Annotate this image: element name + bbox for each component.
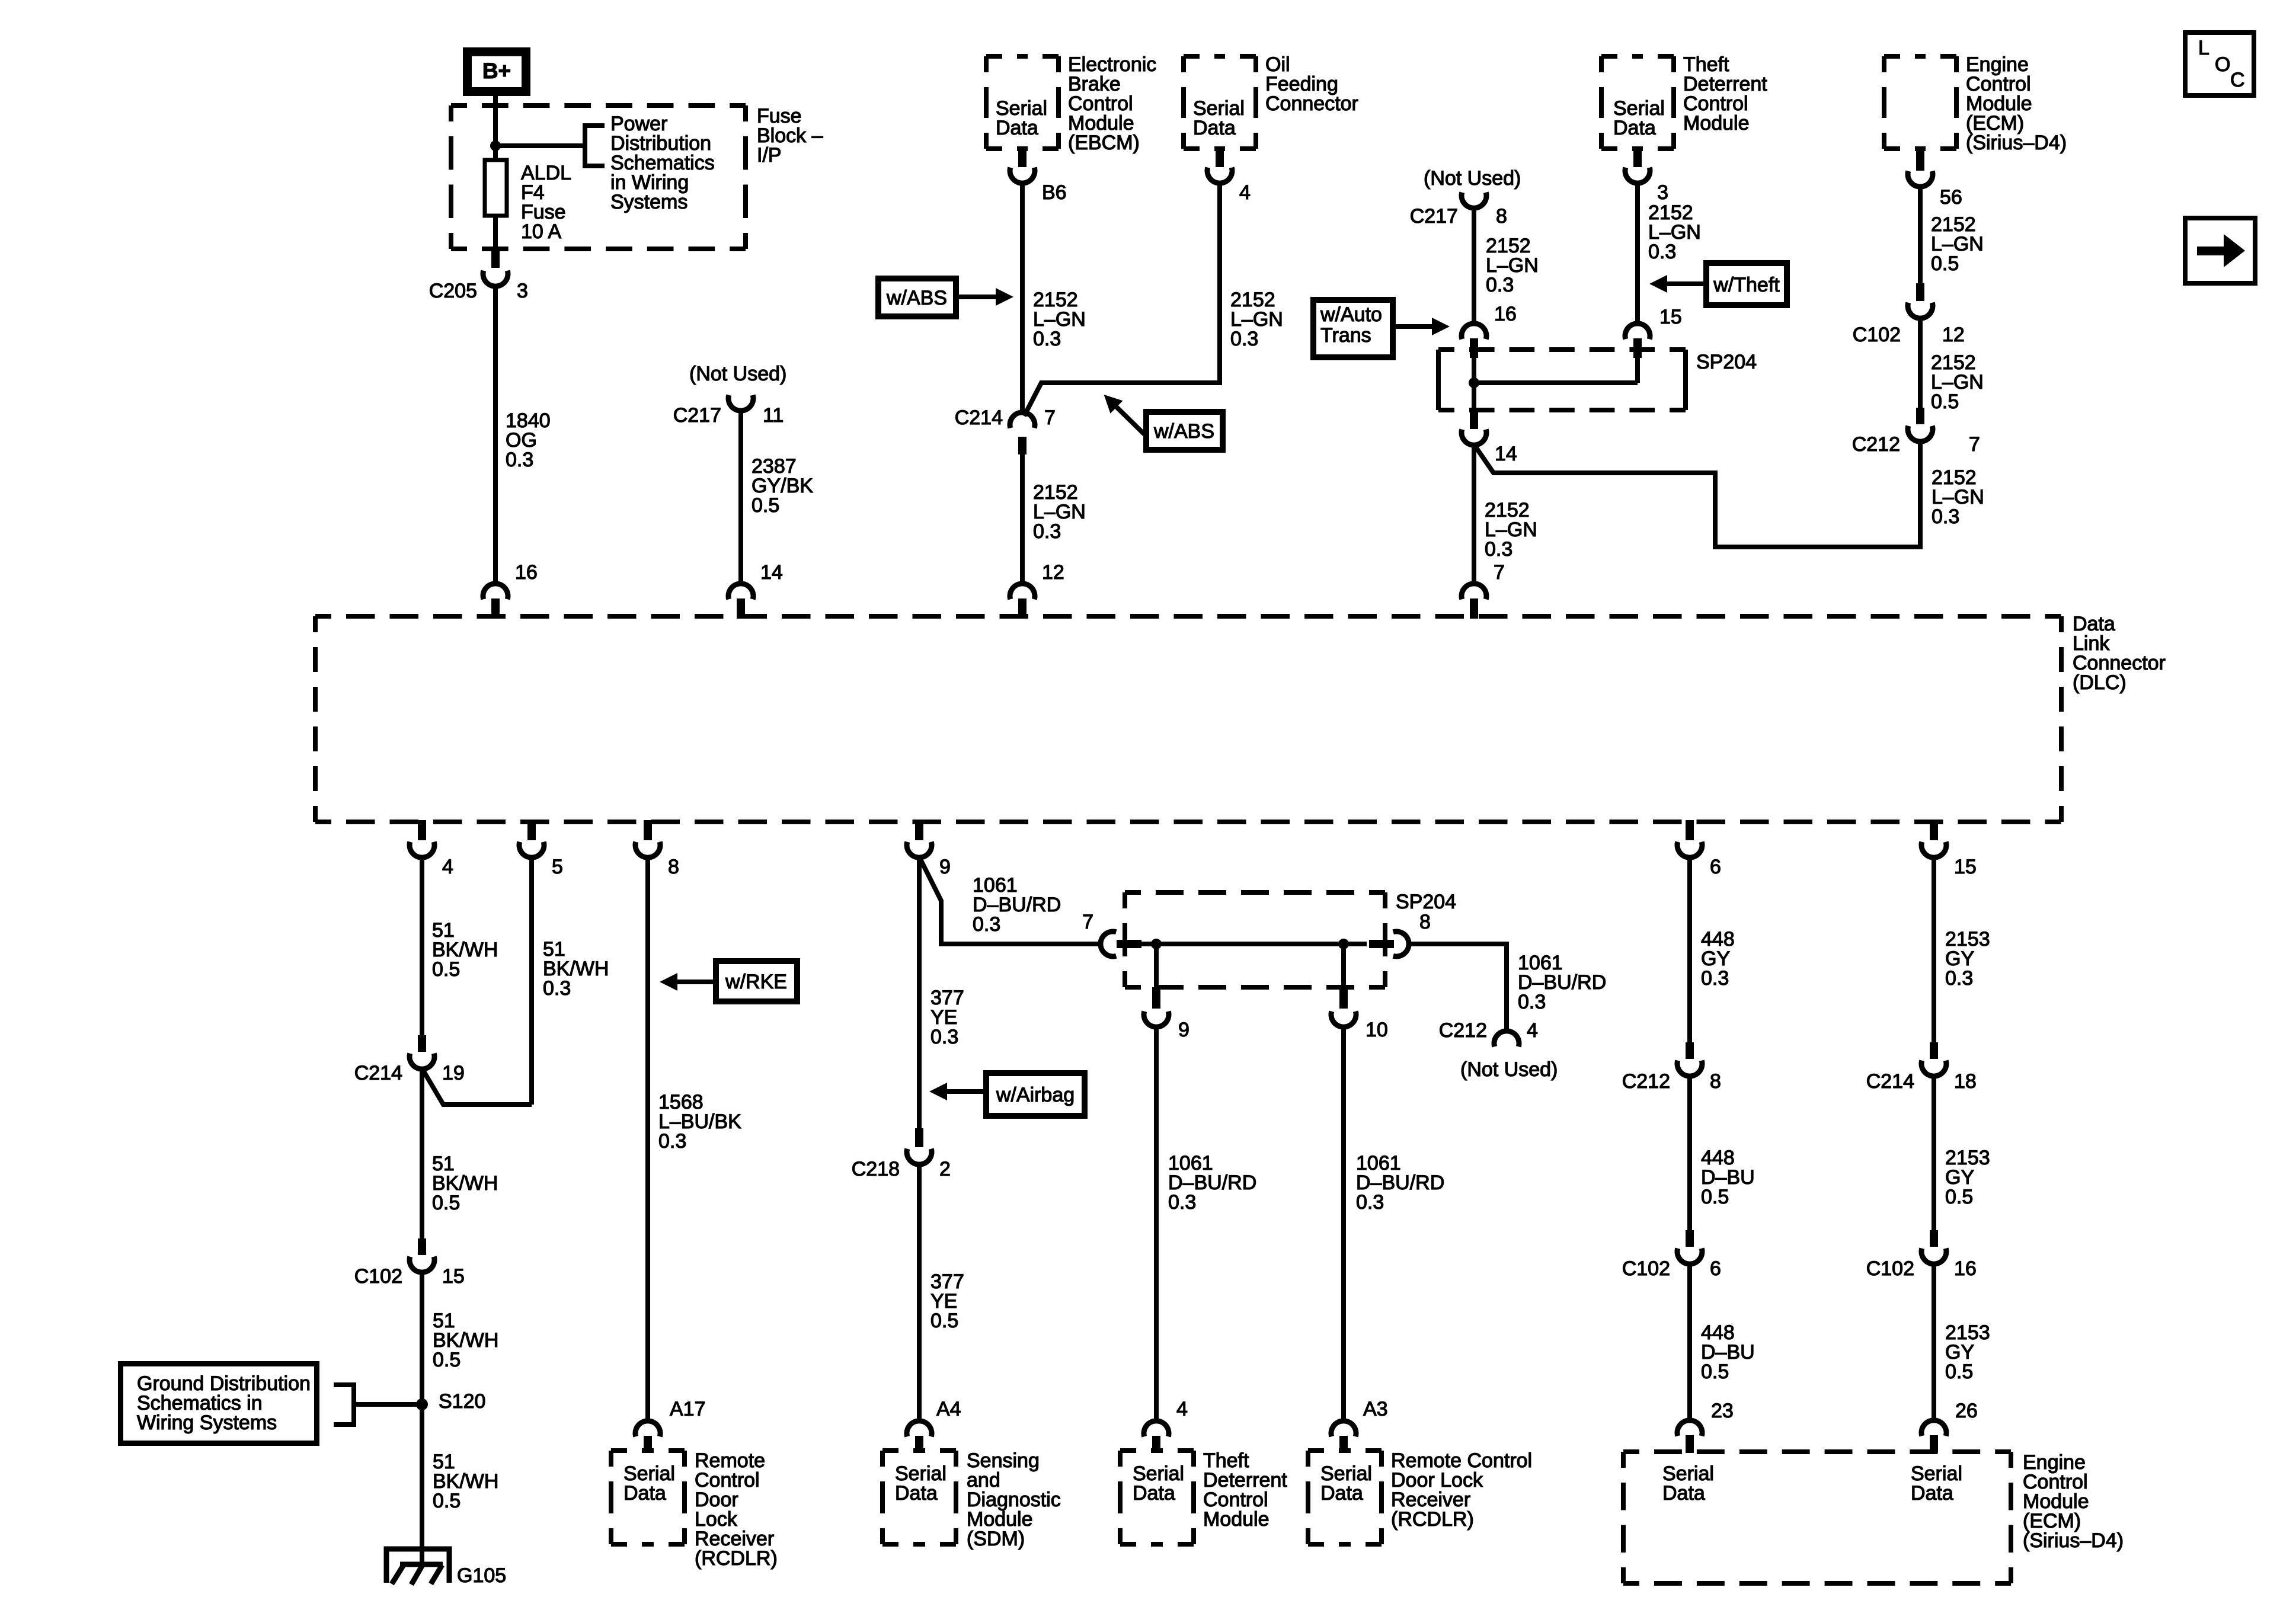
- svg-text:B6: B6: [1042, 181, 1067, 204]
- DLC pin 14 pin: [737, 598, 745, 619]
- svg-text:0.3: 0.3: [506, 449, 533, 471]
- svg-text:Data: Data: [1911, 1482, 1953, 1505]
- wire 377 YE dlc9 to C218: [917, 857, 922, 1128]
- wire 1061 D-BU/RD dlc9 to SP204-7: [919, 857, 1101, 944]
- splice S120: [416, 1398, 428, 1410]
- connector C212 pin 8 pin: [1686, 1042, 1694, 1059]
- ECM pin 23 cup: [1677, 1420, 1702, 1436]
- svg-text:C212: C212: [1852, 433, 1900, 456]
- svg-text:Data: Data: [1133, 1482, 1175, 1505]
- SP204 pin 8 pin: [1369, 940, 1394, 948]
- ECM module box top: [1884, 54, 1956, 59]
- svg-text:7: 7: [1082, 911, 1093, 933]
- legend LOC box: [2185, 33, 2254, 95]
- connector C212 pin 4 cup: [1494, 1031, 1519, 1046]
- svg-text:16: 16: [1954, 1257, 1977, 1280]
- SDM pin A4 pin: [915, 1436, 923, 1452]
- svg-text:C102: C102: [1866, 1257, 1914, 1280]
- wire 1061 D-BU/RD to RCDLR A3: [1341, 1026, 1346, 1422]
- wire 2153 GY C214 to C102: [1932, 1076, 1936, 1230]
- svg-text:I/P: I/P: [757, 144, 782, 167]
- wire 448 D-BU C212 to C102: [1687, 1076, 1692, 1230]
- svg-text:C218: C218: [852, 1158, 900, 1180]
- svg-text:B+: B+: [482, 59, 511, 83]
- DLC pin 12 cup: [1010, 584, 1035, 599]
- wire oil 2152 L-GN to C214 junction: [1024, 183, 1220, 416]
- wire 2152 L-GN SP204-14 to DLC 7: [1472, 444, 1476, 584]
- DLC pin 8 cup: [635, 842, 660, 857]
- svg-text:Data: Data: [1193, 117, 1236, 139]
- wire SP204 lower drop left: [1154, 944, 1159, 987]
- wire 1061 D-BU/RD SP204-8 to C212-4: [1408, 944, 1507, 1033]
- wire 51 BK/WH dlc4 to C214: [420, 857, 424, 1035]
- svg-text:5: 5: [552, 856, 563, 878]
- connector C214 pin 19 cup: [410, 1054, 434, 1069]
- svg-text:w/Auto: w/Auto: [1320, 303, 1382, 326]
- svg-text:Module: Module: [1683, 112, 1750, 135]
- svg-text:C217: C217: [673, 404, 721, 427]
- svg-text:0.3: 0.3: [1033, 328, 1061, 350]
- connector C214 pin 19 pin: [418, 1035, 426, 1052]
- ground distribution reference box: [121, 1364, 317, 1443]
- EBCM pin B6: [1018, 148, 1027, 167]
- wire SP204 internal bus: [1474, 380, 1638, 385]
- connector C102 pin 16 cup: [1921, 1249, 1946, 1264]
- svg-text:0.3: 0.3: [1648, 241, 1676, 263]
- DLC pin 6 cup: [1677, 842, 1702, 857]
- svg-text:4: 4: [1527, 1019, 1538, 1042]
- SP204 pin 14 cup: [1462, 430, 1486, 445]
- svg-text:12: 12: [1042, 561, 1064, 584]
- svg-text:0.3: 0.3: [1485, 538, 1512, 561]
- svg-text:(Sirius–D4): (Sirius–D4): [1966, 132, 2067, 154]
- connector C102 pin 6 cup: [1677, 1249, 1702, 1264]
- svg-text:0.3: 0.3: [1701, 967, 1729, 990]
- theft module pin 3 cup: [1625, 168, 1650, 183]
- wire SP204 lower internal bus: [1141, 942, 1367, 946]
- svg-text:(Not Used): (Not Used): [689, 363, 786, 385]
- svg-text:C205: C205: [429, 280, 477, 302]
- svg-text:S120: S120: [439, 1390, 485, 1413]
- svg-text:4: 4: [1176, 1398, 1188, 1420]
- wire B+ to fuse: [493, 96, 498, 160]
- oil connector pin 4: [1216, 148, 1224, 167]
- DLC pin 4 pin: [418, 820, 426, 840]
- arrow w/RKE left: [677, 980, 713, 984]
- svg-text:26: 26: [1955, 1400, 1978, 1422]
- EBCM pin B6 cup: [1010, 168, 1035, 183]
- DLC pin 7 pin: [1470, 598, 1478, 619]
- svg-text:C214: C214: [955, 406, 1003, 429]
- svg-text:0.5: 0.5: [1701, 1186, 1729, 1208]
- wire 51 BK/WH c214 to c102: [420, 1068, 424, 1238]
- ECM module box lower: [1623, 1449, 2011, 1454]
- svg-text:4: 4: [442, 856, 453, 878]
- SP204 pin 15 cup: [1625, 324, 1650, 339]
- SP204 pin 14 pin: [1470, 410, 1478, 429]
- svg-text:6: 6: [1710, 1257, 1721, 1280]
- wire 2152 L-GN C217-8 to SP204: [1472, 207, 1476, 324]
- svg-text:C217: C217: [1410, 205, 1458, 228]
- svg-text:C212: C212: [1439, 1019, 1487, 1042]
- svg-text:G105: G105: [457, 1564, 506, 1587]
- svg-text:0.3: 0.3: [930, 1026, 958, 1048]
- connector C102 pin 15 cup: [410, 1257, 434, 1272]
- svg-text:0.3: 0.3: [1356, 1191, 1384, 1214]
- svg-text:0.3: 0.3: [1230, 328, 1258, 350]
- theft module pin 4 cup: [1144, 1421, 1169, 1436]
- wire 2387 GY/BK to DLC pin 14: [738, 410, 743, 584]
- svg-text:C102: C102: [354, 1265, 402, 1288]
- splice SP204 box lower: [1125, 890, 1385, 895]
- ground G105 symbol: [386, 1549, 449, 1583]
- svg-text:C214: C214: [1866, 1070, 1914, 1093]
- wire 1061 D-BU/RD to theft pin 4: [1154, 1026, 1159, 1422]
- wire 51 BK/WH to ground: [420, 1272, 424, 1564]
- svg-text:8: 8: [1496, 205, 1507, 228]
- svg-text:0.3: 0.3: [1168, 1191, 1196, 1214]
- svg-text:0.3: 0.3: [973, 913, 1000, 936]
- wire 1568 L-BU/BK dlc8 to A17: [645, 857, 650, 1422]
- reference bracket ground: [334, 1385, 354, 1425]
- theft module pin 3: [1633, 148, 1642, 167]
- svg-text:C214: C214: [354, 1062, 402, 1084]
- svg-text:10 A: 10 A: [521, 220, 561, 243]
- svg-text:Data: Data: [1613, 117, 1656, 139]
- svg-text:w/ABS: w/ABS: [886, 287, 947, 309]
- svg-text:10: 10: [1366, 1019, 1388, 1041]
- w/ABS flag box 1: [878, 279, 956, 316]
- arrow w/Auto Trans right: [1396, 324, 1432, 329]
- wire junction to reference bracket: [495, 143, 585, 148]
- svg-text:L: L: [2198, 37, 2209, 59]
- wire SP204 internal left: [1472, 358, 1476, 410]
- svg-text:9: 9: [939, 856, 951, 878]
- wire 377 YE C218 to A4: [917, 1164, 922, 1422]
- svg-text:12: 12: [1942, 324, 1965, 346]
- svg-text:SP204: SP204: [1696, 351, 1757, 373]
- w/RKE flag box: [716, 961, 797, 1001]
- SP204 pin 15 pin: [1633, 338, 1642, 358]
- svg-text:0.5: 0.5: [1931, 252, 1959, 275]
- battery feed B+ box: [468, 52, 526, 92]
- svg-text:(RCDLR): (RCDLR): [695, 1547, 778, 1570]
- svg-text:16: 16: [1494, 303, 1517, 325]
- SP204 pin 10 pin: [1339, 987, 1348, 1009]
- svg-text:(RCDLR): (RCDLR): [1391, 1508, 1474, 1531]
- connector C214 pin 7 pin: [1018, 437, 1027, 454]
- wire 2152 L-GN SP204-14 to C212-7: [1474, 442, 1920, 547]
- svg-text:Trans: Trans: [1320, 324, 1371, 347]
- connector C205 pin: [491, 251, 500, 268]
- svg-text:0.3: 0.3: [1486, 274, 1514, 296]
- svg-text:0.3: 0.3: [1518, 991, 1546, 1013]
- w/Airbag flag box: [986, 1073, 1085, 1116]
- connector C217 cavity 11 cup: [728, 395, 753, 411]
- svg-text:19: 19: [442, 1062, 465, 1084]
- svg-text:6: 6: [1710, 856, 1721, 878]
- wire 2152 L-GN C102 to C212: [1918, 318, 1923, 409]
- svg-text:0.5: 0.5: [432, 1192, 460, 1214]
- svg-text:w/RKE: w/RKE: [725, 971, 787, 993]
- svg-text:8: 8: [1419, 911, 1431, 933]
- RCDLR pin A3 pin: [1339, 1436, 1348, 1452]
- svg-text:0.5: 0.5: [752, 494, 779, 517]
- connector C212 pin 7 cup: [1908, 426, 1933, 441]
- splice SP204 box: [1438, 347, 1686, 352]
- svg-text:0.5: 0.5: [1701, 1361, 1729, 1383]
- DLC pin 15 pin: [1930, 820, 1938, 840]
- RCDLR module box lower: [1308, 1448, 1382, 1453]
- wire SP204 internal right: [1635, 358, 1640, 383]
- SP204 pin 10 cup: [1331, 1012, 1356, 1027]
- svg-text:16: 16: [515, 561, 538, 584]
- SP204 pin 7 cup: [1101, 932, 1116, 956]
- svg-text:3: 3: [517, 280, 528, 302]
- ECM pin 56 cup: [1908, 171, 1933, 187]
- svg-text:0.5: 0.5: [433, 1349, 461, 1371]
- connector C102 pin 16 pin: [1930, 1230, 1938, 1247]
- SP204 pin 8 cup: [1393, 932, 1409, 956]
- connector C102 pin 15 pin: [418, 1238, 426, 1255]
- wire 2152 L-GN to DLC pin 12: [1020, 454, 1025, 584]
- SP204 pin 7 pin: [1117, 940, 1141, 948]
- connector C212 pin 7 pin: [1916, 408, 1924, 424]
- wire 2153 GY to ECM 26: [1932, 1263, 1936, 1421]
- svg-text:(EBCM): (EBCM): [1068, 132, 1140, 154]
- arrow w/ABS right: [959, 295, 996, 299]
- svg-text:0.3: 0.3: [1033, 520, 1061, 543]
- legend arrow symbol: [2197, 247, 2225, 255]
- svg-text:7: 7: [1969, 433, 1980, 456]
- node SP204 lower junction right: [1338, 939, 1349, 949]
- legend continuation arrow box: [2185, 218, 2255, 283]
- svg-text:C212: C212: [1622, 1070, 1670, 1093]
- svg-text:0.5: 0.5: [1931, 391, 1959, 413]
- EBCM module box: [986, 54, 1059, 59]
- svg-text:15: 15: [1954, 856, 1977, 878]
- svg-text:w/Airbag: w/Airbag: [996, 1084, 1075, 1106]
- w/Theft flag box: [1706, 263, 1787, 305]
- connector C218 pin 2 pin: [915, 1128, 923, 1147]
- svg-text:Data: Data: [623, 1482, 666, 1505]
- DLC pin 14 cup: [728, 584, 753, 599]
- svg-text:Wiring Systems: Wiring Systems: [137, 1411, 277, 1434]
- RCDLR module box: [611, 1448, 685, 1453]
- RCDLR pin A17 cup: [635, 1421, 660, 1436]
- theft deterrent module box: [1601, 54, 1674, 59]
- DLC pin 4 cup: [410, 842, 434, 857]
- reference bracket power distribution: [585, 126, 605, 166]
- svg-text:15: 15: [442, 1265, 465, 1288]
- SDM module box: [882, 1448, 956, 1453]
- svg-text:8: 8: [668, 856, 679, 878]
- SP204 pin 16 pin: [1470, 338, 1478, 358]
- connector C102 pin 6 pin: [1686, 1230, 1694, 1247]
- wire EBCM 2152 L-GN down: [1020, 183, 1025, 415]
- node SP204 junction: [1469, 377, 1479, 388]
- svg-text:9: 9: [1178, 1019, 1189, 1041]
- svg-text:Module: Module: [1203, 1508, 1269, 1531]
- wire 2152 theft to SP204 pin 15: [1635, 183, 1640, 324]
- SP204 pin 16 cup: [1462, 324, 1486, 339]
- wire 2153 GY dlc15 to C214: [1932, 857, 1936, 1042]
- svg-text:A4: A4: [936, 1398, 961, 1420]
- DLC pin 6 pin: [1686, 820, 1694, 840]
- svg-text:Data: Data: [1320, 1482, 1363, 1505]
- svg-text:4: 4: [1239, 181, 1251, 204]
- svg-text:Data: Data: [895, 1482, 938, 1505]
- svg-text:SP204: SP204: [1396, 891, 1456, 913]
- svg-text:A3: A3: [1363, 1398, 1388, 1420]
- svg-text:3: 3: [1657, 181, 1668, 204]
- svg-text:O: O: [2215, 53, 2230, 76]
- DLC pin 8 pin: [644, 820, 652, 840]
- svg-text:0.5: 0.5: [432, 958, 460, 981]
- DLC pin 12 pin: [1018, 598, 1027, 619]
- SP204 pin 9 pin: [1152, 987, 1160, 1009]
- svg-text:Data: Data: [996, 117, 1038, 139]
- DLC pin 7 cup: [1462, 584, 1486, 599]
- arrow w/Airbag left: [947, 1089, 983, 1094]
- wire 2152 L-GN ECM to C102: [1918, 186, 1923, 283]
- ECM pin 26 cup: [1921, 1420, 1946, 1436]
- w/ABS flag box 2: [1146, 412, 1223, 450]
- svg-text:Data: Data: [1662, 1482, 1705, 1505]
- svg-text:C: C: [2230, 69, 2245, 91]
- connector C212 pin 8 cup: [1677, 1061, 1702, 1076]
- svg-text:(Not Used): (Not Used): [1424, 167, 1521, 190]
- theft deterrent module box lower: [1120, 1448, 1194, 1453]
- DLC pin 5 pin: [527, 820, 536, 840]
- svg-text:0.3: 0.3: [658, 1130, 686, 1153]
- fuse block I/P box: [451, 103, 746, 108]
- svg-text:15: 15: [1659, 306, 1682, 328]
- wire 51 BK/WH dlc5 down: [529, 857, 534, 1105]
- node fuse-block junction: [490, 140, 501, 151]
- wire join pin5 to pin19: [422, 1068, 532, 1105]
- svg-text:0.3: 0.3: [1932, 505, 1959, 528]
- svg-text:18: 18: [1954, 1070, 1977, 1093]
- svg-text:0.5: 0.5: [930, 1310, 958, 1332]
- svg-text:7: 7: [1494, 561, 1505, 584]
- oil feeding connector box: [1184, 54, 1256, 59]
- DLC pin 15 cup: [1921, 842, 1946, 857]
- connector C102 pin 12 cup: [1908, 303, 1933, 318]
- connector C214 pin 18 cup: [1921, 1061, 1946, 1076]
- connector C217 cavity 8 cup: [1462, 193, 1486, 208]
- svg-text:(Not Used): (Not Used): [1460, 1058, 1558, 1081]
- svg-text:0.3: 0.3: [1945, 967, 1973, 990]
- SDM pin A4 cup: [907, 1421, 932, 1436]
- connector C205 cup: [483, 271, 508, 286]
- connector C214 pin 18 pin: [1930, 1042, 1938, 1059]
- oil connector pin 4 cup: [1207, 168, 1232, 183]
- svg-text:0.5: 0.5: [1945, 1361, 1973, 1383]
- svg-text:8: 8: [1710, 1070, 1721, 1093]
- svg-text:Systems: Systems: [610, 191, 687, 213]
- svg-text:C102: C102: [1853, 324, 1901, 346]
- svg-text:14: 14: [760, 561, 783, 584]
- DLC pin 9 pin: [915, 820, 923, 840]
- svg-text:C102: C102: [1622, 1257, 1670, 1280]
- SP204 pin 9 cup: [1144, 1012, 1169, 1027]
- svg-text:A17: A17: [670, 1398, 706, 1420]
- DLC pin 9 cup: [907, 842, 932, 857]
- svg-text:0.5: 0.5: [433, 1490, 461, 1512]
- svg-text:11: 11: [763, 404, 784, 427]
- connector C218 pin 2 cup: [907, 1149, 932, 1164]
- svg-text:7: 7: [1044, 406, 1056, 429]
- connector C102 pin 12 pin: [1916, 283, 1924, 301]
- svg-text:0.3: 0.3: [543, 977, 571, 1000]
- svg-text:Connector: Connector: [1265, 92, 1358, 115]
- ECM pin 23 pin: [1686, 1435, 1694, 1453]
- ECM pin 26 pin: [1930, 1435, 1938, 1453]
- wire 448 D-BU to ECM 23: [1687, 1263, 1692, 1421]
- svg-text:(Sirius–D4): (Sirius–D4): [2023, 1529, 2124, 1552]
- svg-text:(DLC): (DLC): [2073, 671, 2126, 694]
- wire SP204 lower drop right: [1341, 944, 1346, 987]
- connector C214 pin 7 cup: [1010, 412, 1035, 428]
- svg-text:56: 56: [1940, 186, 1962, 209]
- DLC pin 16 cup: [483, 584, 508, 599]
- arrow w/ABS up-left: [1117, 407, 1144, 434]
- wire 1840 OG to DLC pin 16: [493, 286, 498, 584]
- svg-text:14: 14: [1495, 443, 1517, 465]
- theft module pin 4 pin: [1152, 1436, 1160, 1452]
- svg-text:23: 23: [1711, 1400, 1734, 1422]
- wire bracket to S120: [354, 1402, 417, 1407]
- svg-text:(SDM): (SDM): [967, 1528, 1025, 1550]
- RCDLR pin A3 cup: [1331, 1421, 1356, 1436]
- DLC pin 16 pin: [491, 598, 500, 619]
- wire fuse to C205: [493, 216, 498, 251]
- svg-text:w/ABS: w/ABS: [1153, 420, 1214, 443]
- DLC pin 5 cup: [519, 842, 544, 857]
- node SP204 lower junction left: [1151, 939, 1162, 949]
- ECM pin 56: [1916, 148, 1924, 171]
- RCDLR pin A17 pin: [644, 1436, 652, 1452]
- svg-text:0.5: 0.5: [1945, 1186, 1973, 1208]
- data link connector DLC box: [315, 614, 2061, 619]
- arrow w/Theft left: [1667, 281, 1703, 286]
- w/Auto Trans flag box: [1313, 300, 1393, 357]
- fuse F4: [485, 160, 507, 216]
- svg-text:2: 2: [939, 1158, 951, 1180]
- wire 448 GY dlc6 to C212: [1687, 857, 1692, 1042]
- svg-text:w/Theft: w/Theft: [1713, 274, 1780, 296]
